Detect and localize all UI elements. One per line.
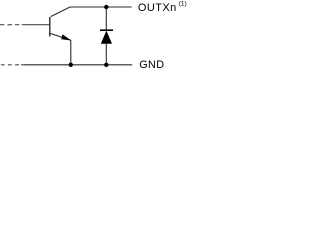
junction dot: diode / ground rail [104,63,108,67]
transistor Q1 base bar [49,17,50,37]
diode D1 cathode wire (top) [105,7,107,30]
diode D1 anode wire (bottom) [105,44,107,65]
transistor Q1 collector lead [51,7,70,17]
wire: ground rail [24,64,132,66]
junction dot: top rail / diode [104,5,108,9]
wire: top rail to OUTXn [70,6,132,8]
svg-text:GND: GND [139,59,164,71]
wire: solid base segment [22,24,50,26]
wire: dashed base input [0,24,19,26]
diode D1 cathode bar [100,29,113,31]
transistor Q1 emitter arrowhead [61,34,71,40]
wire: dashed ground rail (left) [1,64,24,66]
diode D1 body triangle [101,31,112,44]
wire: emitter down to ground rail [70,40,72,65]
transistor Q1 emitter lead [51,34,71,41]
junction dot: emitter / ground rail [69,63,73,67]
